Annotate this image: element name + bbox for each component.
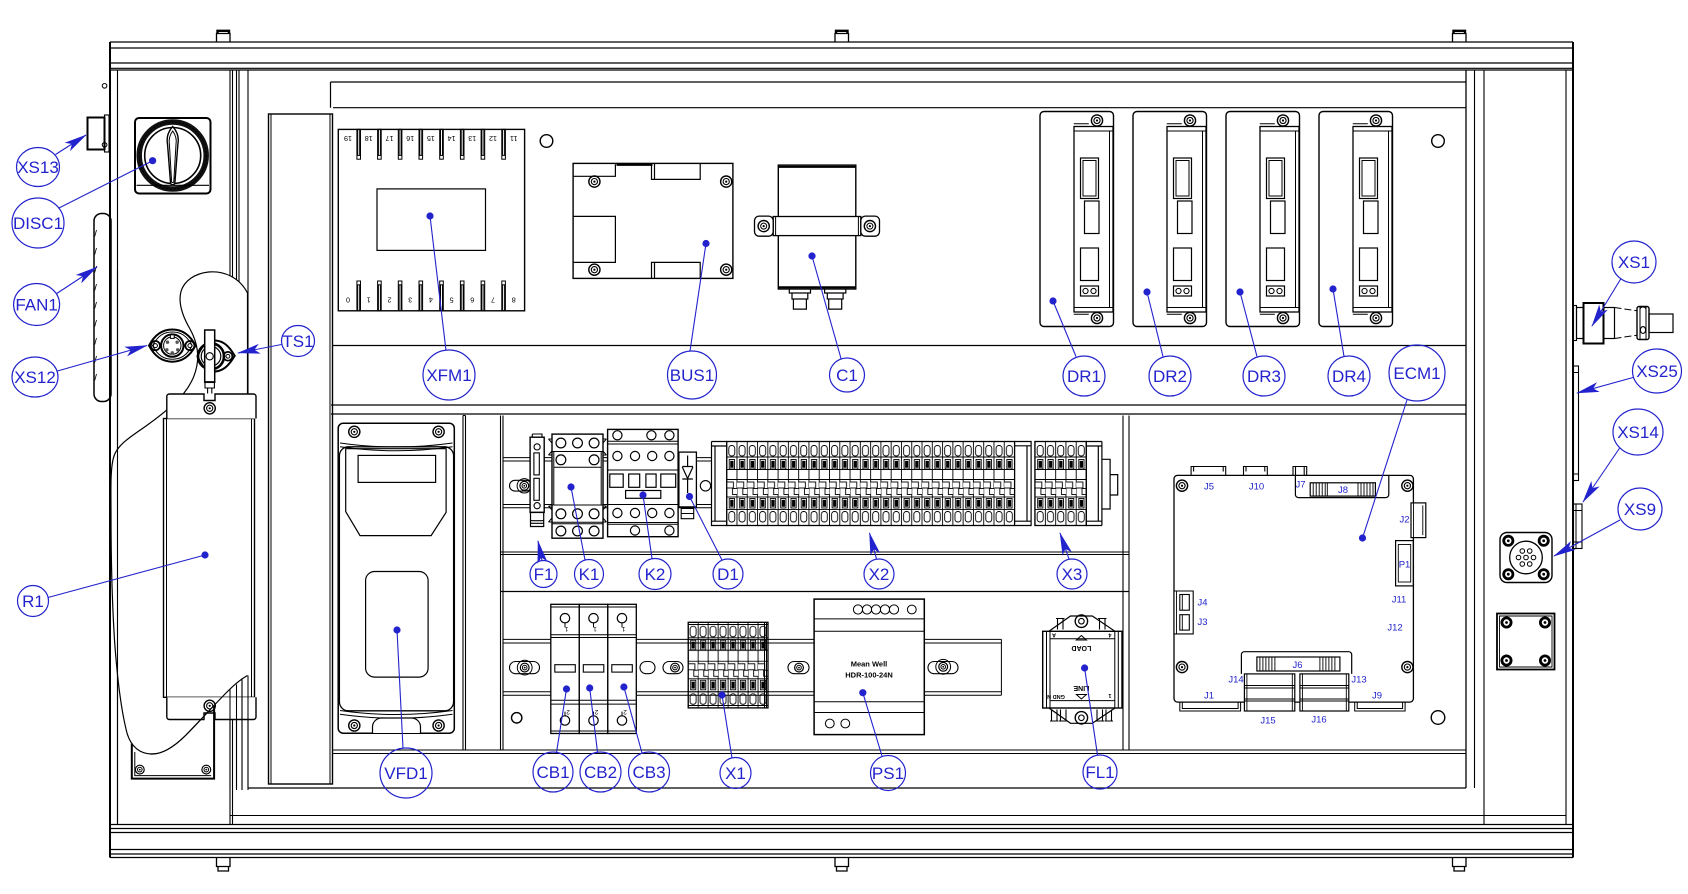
label DISC1 (12, 157, 156, 248)
label PS1 (859, 689, 905, 790)
label F1 (530, 541, 557, 588)
X1 terminal block (688, 622, 768, 708)
J9 bottom edge tab (1355, 702, 1405, 711)
FL1 line filter (1043, 615, 1122, 724)
J10 top edge connector (1244, 467, 1268, 476)
svg-text:1: 1 (564, 625, 568, 632)
svg-text:2: 2 (623, 708, 627, 715)
svg-text:1: 1 (367, 296, 371, 305)
top mounting tab left (217, 31, 231, 42)
svg-text:XS25: XS25 (1636, 362, 1678, 381)
svg-text:1: 1 (621, 625, 625, 632)
svg-text:FL1: FL1 (1085, 763, 1114, 782)
middle section right edge (1123, 416, 1129, 751)
svg-text:X3: X3 (1062, 565, 1083, 584)
CB1 circuit breaker (551, 604, 580, 733)
DR4 servo drive (1319, 112, 1393, 327)
svg-text:P1: P1 (1399, 560, 1411, 571)
svg-text:J15: J15 (1260, 716, 1275, 727)
VFD1 variable frequency drive (338, 423, 454, 733)
CB2 circuit breaker (579, 604, 608, 733)
svg-text:K1: K1 (579, 565, 600, 584)
J7 top edge connector (1293, 467, 1307, 476)
label ECM1 (1359, 345, 1445, 542)
J6 connector recess (1241, 652, 1351, 674)
svg-text:J13: J13 (1351, 675, 1366, 686)
X2 terminal block strip (712, 442, 1032, 526)
svg-text:J6: J6 (1292, 660, 1302, 671)
svg-text:17: 17 (386, 134, 394, 143)
J4 left edge connector (1174, 591, 1193, 634)
DR1 servo drive (1040, 112, 1114, 327)
panel mounting hole top left (540, 135, 553, 148)
svg-text:8: 8 (512, 296, 516, 305)
label K2 (639, 491, 671, 589)
svg-text:XFM1: XFM1 (426, 366, 471, 385)
label VFD1 (380, 626, 432, 798)
XS12 DIN connector (149, 330, 196, 362)
label XS25 (1577, 349, 1682, 393)
label CB2 (580, 684, 621, 792)
left wall lines redrawn over scroll (109, 270, 111, 825)
left section bottom plate (132, 706, 214, 779)
panel mounting hole bottom left (512, 713, 522, 723)
svg-text:0: 0 (346, 296, 350, 305)
label XS12 (12, 346, 147, 398)
svg-text:16: 16 (406, 134, 414, 143)
svg-text:XS12: XS12 (14, 368, 56, 387)
sub-frame divider below upper section (333, 345, 1466, 347)
sub-frame divider below middle DIN section (501, 552, 1129, 555)
label FL1 (1081, 664, 1117, 789)
svg-text:19: 19 (344, 134, 352, 143)
XS13 panel connector (88, 115, 110, 152)
ECM1 corner screw top-right (1402, 480, 1413, 491)
back panel outline (230, 70, 1566, 816)
svg-text:VFD1: VFD1 (384, 764, 427, 783)
label TS1 (238, 326, 315, 357)
svg-text:Mean Well: Mean Well (851, 660, 888, 669)
svg-text:2: 2 (594, 708, 598, 715)
C1 capacitor (755, 165, 880, 309)
svg-text:3: 3 (408, 296, 412, 305)
label DR2 (1143, 288, 1191, 396)
svg-text:5: 5 (450, 296, 454, 305)
svg-text:CB1: CB1 (536, 763, 569, 782)
label XS9 (1554, 488, 1662, 556)
svg-text:6: 6 (470, 296, 474, 305)
J5 top edge connector (1191, 467, 1226, 476)
ECM1 corner screw top-left (1176, 480, 1187, 491)
label CB3 (620, 683, 669, 792)
J16 bottom connector (1300, 674, 1349, 711)
svg-text:XS9: XS9 (1624, 500, 1656, 519)
F1 fuse holder (530, 434, 544, 527)
svg-text:DR2: DR2 (1153, 367, 1187, 386)
fan scroll curve over R1 bracket (151, 676, 248, 755)
svg-text:K2: K2 (645, 565, 666, 584)
J1 bottom edge tab (1180, 702, 1241, 711)
svg-text:D1: D1 (717, 565, 739, 584)
svg-text:J4: J4 (1198, 598, 1208, 609)
svg-text:C1: C1 (836, 366, 858, 385)
label XS13 (17, 135, 87, 187)
label D1 (686, 493, 743, 589)
svg-text:12: 12 (489, 134, 497, 143)
top mounting tab right (1453, 31, 1467, 42)
J15 bottom connector (1244, 674, 1294, 711)
svg-text:J1: J1 (1204, 691, 1214, 702)
svg-text:J10: J10 (1249, 482, 1264, 493)
K2 contactor (608, 429, 679, 536)
bottom foot tab right (1453, 858, 1467, 872)
svg-text:2: 2 (388, 296, 392, 305)
sub-frame line above lower DIN section (501, 591, 1129, 593)
label XS1 (1592, 241, 1656, 326)
enclosure bottom extrusion rail (110, 825, 1573, 858)
XFM1 transformer (338, 129, 524, 310)
label X3 (1057, 533, 1087, 589)
panel mounting hole bottom right (1431, 711, 1445, 725)
wire duct vertical (269, 114, 333, 784)
BUS1 bus module (573, 163, 733, 278)
svg-text:DR1: DR1 (1067, 367, 1101, 386)
K1 contactor (549, 434, 607, 538)
ECM1 connector labels (1198, 480, 1411, 727)
svg-text:X1: X1 (725, 764, 746, 783)
left section divider columns (230, 70, 248, 825)
enclosure top extrusion rail (110, 42, 1573, 70)
J8 connector recess (1295, 475, 1388, 497)
svg-text:J12: J12 (1387, 623, 1402, 634)
XS14 plate (1574, 504, 1583, 549)
panel mounting hole top right (1432, 135, 1445, 148)
top mounting tab middle (835, 31, 849, 42)
svg-text:7: 7 (491, 296, 495, 305)
svg-text:2: 2 (566, 708, 570, 715)
DISC1 disconnect switch (135, 118, 211, 194)
label C1 (808, 252, 864, 392)
label DR4 (1328, 285, 1370, 396)
label K1 (567, 483, 603, 588)
svg-text:1: 1 (593, 625, 597, 632)
XS9 circular connector (1500, 533, 1552, 583)
svg-text:DR3: DR3 (1247, 367, 1281, 386)
label BUS1 (668, 240, 717, 399)
D1 diode module (679, 452, 697, 519)
label DR1 (1049, 297, 1105, 396)
svg-text:15: 15 (427, 134, 435, 143)
VFD column divider strip (463, 416, 466, 751)
svg-text:CB3: CB3 (632, 763, 665, 782)
svg-text:J16: J16 (1311, 715, 1326, 726)
hinge pins on left wall (102, 84, 107, 148)
right enclosure wall (1484, 42, 1573, 858)
svg-text:J8: J8 (1338, 485, 1348, 496)
svg-text:HDR-100-24N: HDR-100-24N (845, 671, 893, 680)
blank square plate below XS9 (1497, 614, 1555, 670)
R1 top mounting bracket (167, 394, 256, 419)
label X1 (718, 691, 751, 788)
svg-text:J7: J7 (1295, 480, 1305, 491)
svg-text:DISC1: DISC1 (13, 214, 63, 233)
svg-text:LOAD: LOAD (1071, 644, 1091, 651)
DR2 servo drive (1133, 112, 1207, 327)
svg-text:R1: R1 (22, 592, 44, 611)
svg-text:X2: X2 (869, 565, 890, 584)
wedge fold line (241, 680, 243, 791)
lower DIN rail (503, 639, 1001, 695)
svg-text:CB2: CB2 (584, 763, 617, 782)
PS1 power supply (814, 599, 924, 735)
XS1 bulkhead connector (1574, 303, 1674, 344)
sub-frame bottom rail lines (333, 750, 1466, 754)
left enclosure wall (110, 42, 118, 858)
svg-text:F1: F1 (534, 565, 554, 584)
svg-text:FAN1: FAN1 (15, 296, 58, 315)
svg-text:14: 14 (448, 134, 456, 143)
label X2 (864, 533, 894, 589)
svg-text:J11: J11 (1392, 595, 1407, 606)
bottom foot tab middle (835, 858, 849, 872)
svg-text:PS1: PS1 (872, 764, 904, 783)
J2 right edge connector (1411, 503, 1426, 538)
CB3 circuit breaker (608, 604, 637, 733)
label CB1 (533, 685, 573, 792)
P1 connector (1396, 541, 1414, 586)
svg-text:18: 18 (365, 134, 373, 143)
label FAN1 (14, 267, 97, 326)
ECM1 corner screw bottom-right (1402, 662, 1413, 673)
svg-text:4: 4 (429, 296, 433, 305)
svg-text:BUS1: BUS1 (670, 366, 714, 385)
svg-text:TS1: TS1 (282, 332, 313, 351)
svg-text:J3: J3 (1198, 617, 1208, 628)
svg-text:GND N: GND N (1047, 693, 1065, 699)
panel fold verticals over bracket (230, 676, 248, 791)
FAN1 fan housing edge-on (94, 214, 111, 402)
XS25 blank plate (1574, 366, 1579, 481)
svg-text:XS13: XS13 (17, 158, 59, 177)
label R1 (18, 551, 209, 616)
svg-text:XS1: XS1 (1618, 253, 1650, 272)
svg-text:XS14: XS14 (1617, 423, 1659, 442)
svg-text:DR4: DR4 (1332, 367, 1366, 386)
svg-text:13: 13 (468, 134, 476, 143)
sub-frame label band lines (331, 405, 1466, 414)
label XS14 (1583, 409, 1663, 502)
svg-text:1: 1 (1108, 692, 1111, 698)
X3 terminal block strip (1035, 442, 1118, 526)
ECM1 controller board outline (1174, 475, 1413, 702)
svg-text:J9: J9 (1372, 691, 1382, 702)
fan scroll cable curve (white region) (111, 272, 248, 754)
R1 brake resistor body (164, 419, 255, 698)
ECM1 corner screw bottom-left (1176, 662, 1187, 673)
label XFM1 (423, 212, 475, 400)
sub-frame top rail (331, 82, 1467, 108)
middle DIN rail (503, 458, 712, 508)
svg-text:J2: J2 (1399, 515, 1409, 526)
middle section left edge (501, 416, 504, 751)
R1 bottom mounting bracket (167, 697, 256, 719)
TS1 thermostat sensor (198, 330, 235, 394)
svg-text:11: 11 (510, 134, 517, 143)
label DR3 (1236, 288, 1285, 396)
svg-text:A: A (1052, 632, 1056, 638)
bottom foot tab left (217, 858, 231, 872)
svg-text:J5: J5 (1204, 482, 1214, 493)
DR3 servo drive (1226, 112, 1300, 327)
svg-text:ECM1: ECM1 (1393, 364, 1440, 383)
J3 left edge connector (1180, 615, 1190, 630)
svg-text:J14: J14 (1228, 675, 1243, 686)
